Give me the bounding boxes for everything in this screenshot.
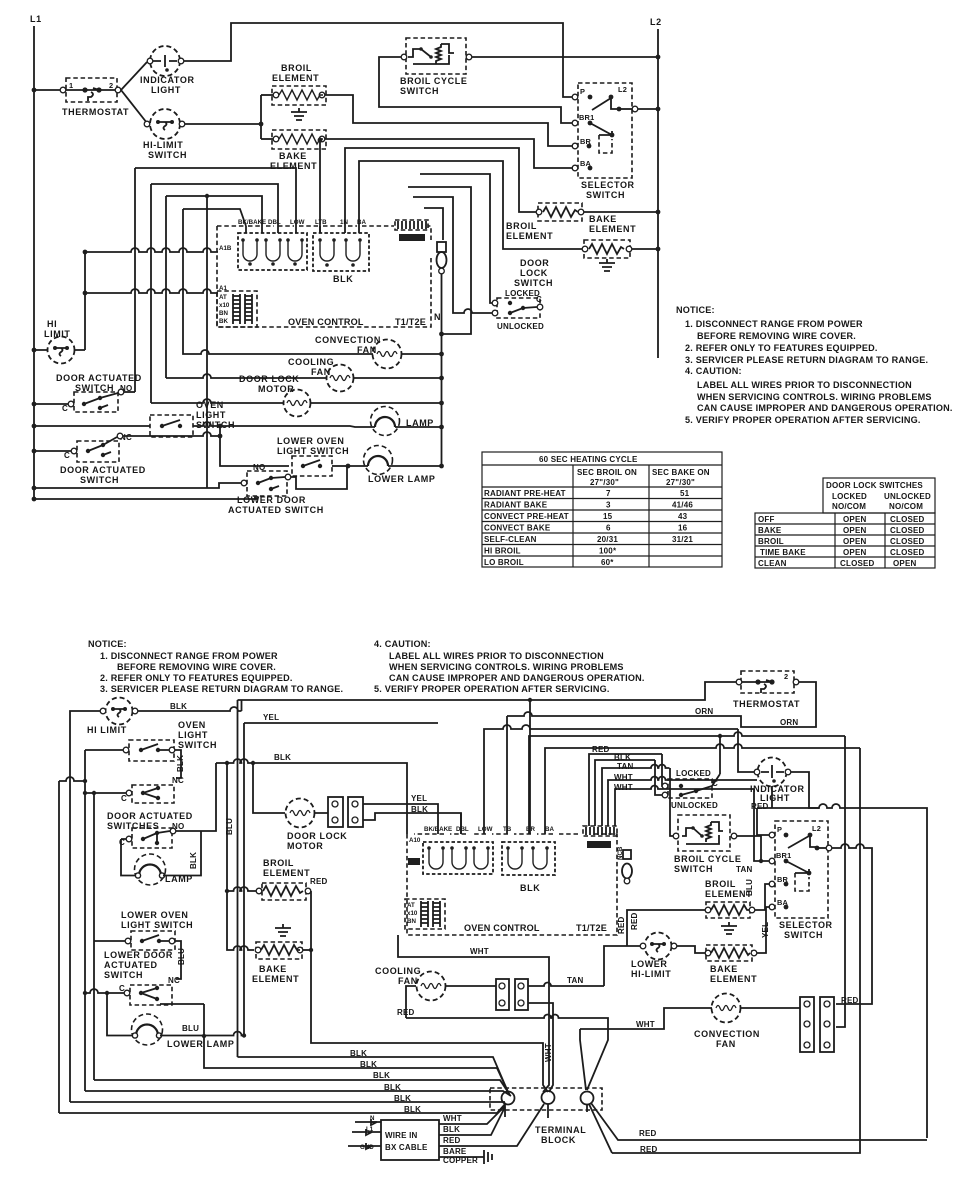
svg-text:OPEN: OPEN [843, 548, 866, 557]
wire ladder vertical v1 [134, 168, 136, 392]
svg-text:RED: RED [640, 1145, 658, 1154]
motor connector blocks J2 [328, 797, 363, 827]
wire WHT line from control [398, 935, 549, 1092]
wire locked feed [662, 754, 665, 786]
svg-text:BR1: BR1 [776, 851, 791, 860]
svg-text:MOTOR: MOTOR [258, 384, 294, 394]
wire NO out and lamp right join [176, 763, 216, 831]
svg-text:LIGHT: LIGHT [178, 730, 208, 740]
cooling connector blocks J4 [446, 979, 528, 1010]
svg-text:SWITCH: SWITCH [674, 864, 713, 874]
svg-text:41/46: 41/46 [672, 501, 693, 510]
wire broil cycle out to BR1 [737, 836, 761, 861]
svg-text:DOOR LOCK: DOOR LOCK [287, 831, 347, 841]
oven light switch S7 [32, 400, 375, 437]
svg-text:L2: L2 [618, 85, 627, 94]
svg-text:THERMOSTAT: THERMOSTAT [733, 699, 800, 709]
svg-text:AT: AT [219, 294, 227, 301]
svg-text:HI LIMIT: HI LIMIT [87, 725, 127, 735]
svg-text:SWITCH: SWITCH [784, 930, 823, 940]
sensor oval F1 [437, 242, 447, 274]
wire connector to bake el right side (staircase 5b) [408, 187, 471, 334]
svg-text:NO: NO [253, 463, 265, 472]
svg-text:SWITCH: SWITCH [148, 150, 187, 160]
wire C row 1 [85, 792, 126, 794]
wire relay pin to right bake element (staircase 4) [359, 161, 582, 249]
svg-text:ELEMENT: ELEMENT [270, 161, 317, 171]
svg-text:CAN CAUSE IMPROPER AND DANGERO: CAN CAUSE IMPROPER AND DANGEROUS OPERATI… [389, 673, 645, 683]
svg-text:YEL: YEL [263, 713, 279, 722]
svg-text:OPEN: OPEN [843, 515, 866, 524]
wire BLK mid bus [216, 759, 407, 834]
svg-text:BLK: BLK [394, 1094, 411, 1103]
svg-text:BLK: BLK [384, 1083, 401, 1092]
wire ladder vertical v3 [165, 196, 167, 378]
svg-text:BAKE: BAKE [758, 526, 782, 535]
svg-text:CONVECT BAKE: CONVECT BAKE [484, 524, 551, 533]
wire hi-limit right to BLK top wire [138, 707, 242, 711]
svg-text:LO BROIL: LO BROIL [484, 558, 524, 567]
svg-text:WHT: WHT [544, 1043, 553, 1062]
hi limit S11 [87, 698, 138, 736]
svg-text:T1/T2E: T1/T2E [395, 317, 426, 327]
svg-text:BLU: BLU [177, 948, 186, 965]
svg-text:BROIL CYCLE: BROIL CYCLE [400, 76, 467, 86]
svg-text:7: 7 [606, 489, 611, 498]
wire thermostat split to indicator and hi-limit [121, 62, 147, 123]
svg-text:RED: RED [630, 912, 639, 930]
svg-text:HI-LIMIT: HI-LIMIT [631, 969, 671, 979]
door actuated switch S6 (NO) [32, 373, 142, 413]
wire L2 vertical bus [657, 29, 659, 358]
svg-text:COOLING: COOLING [288, 357, 334, 367]
wire ladder h1 to pin [135, 168, 296, 226]
wire post2/post3 feeds from above [543, 957, 549, 1085]
svg-text:2: 2 [109, 81, 113, 90]
svg-text:LOCKED: LOCKED [832, 492, 867, 501]
svg-text:NOTICE:: NOTICE: [676, 305, 715, 315]
svg-text:2. REFER ONLY TO FEATURES EQUI: 2. REFER ONLY TO FEATURES EQUIPPED. [685, 343, 878, 353]
wire indicator to top bus and P of selector [184, 23, 573, 97]
lower oven light switch S15 [121, 910, 193, 950]
svg-text:OVEN CONTROL: OVEN CONTROL [464, 923, 540, 933]
svg-text:UNLOCKED: UNLOCKED [671, 801, 718, 810]
wire lower lamp right to bottom bus B1 [160, 1032, 244, 1036]
svg-text:LOCKED: LOCKED [505, 289, 540, 298]
convection connector blocks J5 [741, 997, 834, 1052]
svg-text:BLK: BLK [274, 753, 291, 762]
svg-text:C: C [712, 779, 718, 788]
svg-text:LTB: LTB [315, 219, 327, 226]
svg-text:BR1: BR1 [579, 113, 594, 122]
svg-text:1: 1 [69, 81, 73, 90]
svg-text:BAKE: BAKE [259, 964, 287, 974]
svg-text:FAN: FAN [398, 976, 418, 986]
wire tan to broil cycle left [670, 768, 675, 836]
svg-text:LOWER DOOR: LOWER DOOR [104, 950, 173, 960]
svg-text:43: 43 [678, 512, 688, 521]
svg-text:OFF: OFF [758, 515, 775, 524]
convection fan M1 [183, 335, 444, 369]
svg-text:2: 2 [784, 672, 788, 681]
svg-text:60*: 60* [601, 558, 614, 567]
svg-text:100*: 100* [599, 547, 617, 556]
svg-text:SWITCH: SWITCH [196, 420, 235, 430]
svg-text:TIME BAKE: TIME BAKE [760, 548, 806, 557]
wire TAN line [528, 983, 604, 987]
svg-text:31/21: 31/21 [672, 535, 693, 544]
svg-text:DOOR: DOOR [520, 258, 549, 268]
svg-text:ORN: ORN [780, 718, 798, 727]
svg-text:RED: RED [592, 745, 610, 754]
wire RED line to post3 [406, 1015, 608, 1091]
broil cycle switch S2 [400, 38, 472, 96]
relay bank RB3 [423, 826, 493, 874]
svg-text:ELEMENT: ELEMENT [710, 974, 757, 984]
svg-text:BLK: BLK [614, 753, 631, 762]
svg-text:RED: RED [617, 916, 626, 934]
wire bake element left-side to BA (staircase 2) [325, 139, 573, 168]
svg-text:AT: AT [407, 902, 415, 909]
svg-text:SWITCH: SWITCH [514, 278, 553, 288]
svg-text:LOW: LOW [290, 219, 305, 226]
wire selector L2 out to v3 [832, 844, 872, 1004]
svg-text:OVEN: OVEN [178, 720, 206, 730]
wire bake right up to BA (YEL) [757, 907, 770, 953]
svg-text:BEFORE REMOVING WIRE COVER.: BEFORE REMOVING WIRE COVER. [117, 662, 276, 672]
wire indicator left feed [738, 729, 754, 772]
svg-text:SELECTOR: SELECTOR [581, 180, 635, 190]
svg-text:BN: BN [219, 310, 228, 317]
lower oven light switch S9 [277, 436, 349, 476]
svg-text:C: C [536, 295, 542, 304]
svg-text:20/31: 20/31 [597, 535, 618, 544]
svg-text:WHEN SERVICING CONTROLS. WIRIN: WHEN SERVICING CONTROLS. WIRING PROBLEMS [697, 392, 932, 402]
svg-text:BX CABLE: BX CABLE [385, 1143, 428, 1152]
hi-limit switch S1 [143, 109, 187, 160]
svg-text:LOW: LOW [478, 826, 493, 833]
svg-text:ELEMENT: ELEMENT [272, 73, 319, 83]
wire in bx cable J6 [348, 1115, 439, 1160]
bake element bottom right R8 [705, 922, 757, 984]
svg-text:C: C [119, 984, 125, 993]
svg-text:SWITCH: SWITCH [400, 86, 439, 96]
svg-text:CLOSED: CLOSED [890, 515, 925, 524]
wire left bus b1 with hop [59, 777, 85, 781]
wire indicator right to right bus v4 [791, 772, 927, 1138]
relay pins vertical stubs [246, 226, 359, 233]
svg-text:5. VERIFY PROPER OPERATION AFT: 5. VERIFY PROPER OPERATION AFTER SERVICI… [685, 415, 921, 425]
svg-text:ELEMENT: ELEMENT [506, 231, 553, 241]
svg-text:A1: A1 [219, 285, 227, 292]
svg-text:DOOR ACTUATED: DOOR ACTUATED [107, 811, 193, 821]
wire lamp row drop to lower light switch [220, 426, 289, 466]
svg-text:RED: RED [443, 1136, 461, 1145]
svg-text:INDICATOR: INDICATOR [140, 75, 195, 85]
svg-text:BLK: BLK [170, 702, 187, 711]
svg-text:WHT: WHT [614, 773, 633, 782]
svg-text:ELEMENT: ELEMENT [252, 974, 299, 984]
svg-text:LOWER LAMP: LOWER LAMP [368, 474, 436, 484]
svg-text:BLK: BLK [176, 755, 185, 772]
svg-text:BLK: BLK [360, 1060, 377, 1069]
svg-text:WIRE IN: WIRE IN [385, 1131, 418, 1140]
svg-text:BLK: BLK [189, 852, 198, 869]
svg-text:SELF-CLEAN: SELF-CLEAN [484, 535, 537, 544]
oven light switch S12 [123, 720, 217, 761]
svg-text:LABEL ALL WIRES PRIOR TO DISCO: LABEL ALL WIRES PRIOR TO DISCONNECTION [389, 651, 604, 661]
wire connector low to bundle [528, 1003, 553, 1092]
svg-text:BLK: BLK [411, 805, 428, 814]
svg-text:1N: 1N [340, 219, 348, 226]
svg-text:LOCK: LOCK [520, 268, 548, 278]
svg-text:3. SERVICER PLEASE RETURN DIAG: 3. SERVICER PLEASE RETURN DIAGRAM TO RAN… [100, 684, 343, 694]
lower hi-limit S20 [631, 933, 677, 980]
svg-text:27"/30": 27"/30" [590, 478, 619, 487]
wire connector fan out RED/BLK/TAN/WHT/WHT [589, 754, 662, 826]
ground between elements [291, 108, 307, 120]
svg-text:WHT: WHT [470, 947, 489, 956]
svg-text:2. REFER ONLY TO FEATURES EQUI: 2. REFER ONLY TO FEATURES EQUIPPED. [100, 673, 293, 683]
svg-text:CAN CAUSE IMPROPER AND DANGERO: CAN CAUSE IMPROPER AND DANGEROUS OPERATI… [697, 403, 953, 413]
svg-text:RED: RED [397, 1008, 415, 1017]
wire ladder vertical v4 [182, 209, 184, 352]
svg-text:3: 3 [606, 501, 611, 510]
wire lower hi-limit left to TAN line [604, 946, 640, 986]
svg-text:CLOSED: CLOSED [890, 537, 925, 546]
svg-text:DOOR LOCK: DOOR LOCK [239, 374, 299, 384]
svg-text:SWITCH: SWITCH [104, 970, 143, 980]
connector J1 right [395, 220, 428, 241]
svg-text:6: 6 [606, 524, 611, 533]
wire broil cycle left to BR1 [379, 57, 573, 123]
wire hi-limit to elements junction [185, 95, 261, 139]
svg-text:51: 51 [680, 489, 690, 498]
wire unlocked feed [655, 760, 665, 795]
wire YEL/BLK to control pins [363, 804, 438, 834]
relay bank RB2 [313, 219, 369, 284]
broil element R1 [261, 63, 326, 105]
svg-text:P: P [777, 825, 782, 834]
svg-text:C: C [121, 794, 127, 803]
hi limit S5 [32, 319, 85, 364]
svg-text:LIGHT SWITCH: LIGHT SWITCH [277, 446, 349, 456]
svg-text:BLK: BLK [443, 1125, 460, 1134]
svg-text:BLK: BLK [404, 1105, 421, 1114]
svg-text:x10: x10 [219, 302, 230, 309]
svg-text:ELEMENT: ELEMENT [589, 224, 636, 234]
svg-text:BLU: BLU [225, 818, 234, 835]
svg-text:L2: L2 [650, 17, 662, 27]
wire ladder vertical v5 [206, 196, 208, 488]
lamp DS2 [371, 407, 444, 436]
wire ladder vertical v2 [150, 184, 152, 403]
svg-text:CLEAN: CLEAN [758, 559, 787, 568]
svg-text:WHT: WHT [614, 783, 633, 792]
svg-text:RADIANT BAKE: RADIANT BAKE [484, 501, 548, 510]
svg-text:BROIL CYCLE: BROIL CYCLE [674, 854, 741, 864]
cooling fan M5 [375, 966, 446, 1001]
svg-text:CONVECTION: CONVECTION [315, 335, 381, 345]
wire lower light out down (BLU) [175, 941, 181, 979]
svg-text:NO/COM: NO/COM [832, 502, 866, 511]
svg-text:LOWER OVEN: LOWER OVEN [277, 436, 345, 446]
svg-text:NOTICE:: NOTICE: [88, 639, 127, 649]
broil cycle switch S18 [673, 815, 752, 874]
wire ladder h4 to pin [183, 209, 246, 226]
svg-text:27"/30": 27"/30" [666, 478, 695, 487]
door lock switch S4 [492, 258, 553, 331]
lamp DS4 [135, 854, 193, 885]
svg-text:1. DISCONNECT RANGE FROM POWER: 1. DISCONNECT RANGE FROM POWER [100, 651, 278, 661]
broil element right side R3 [506, 203, 584, 241]
wire cooling fan left to RED line [406, 986, 416, 1018]
svg-text:SWITCH: SWITCH [586, 190, 625, 200]
svg-text:4. CAUTION:: 4. CAUTION: [685, 366, 742, 376]
svg-text:BLU: BLU [182, 1024, 199, 1033]
wire lamp drop [107, 993, 134, 1036]
wire broil left down to lower hi-limit [627, 910, 705, 946]
svg-text:DOOR ACTUATED: DOOR ACTUATED [56, 373, 142, 383]
svg-text:FAN: FAN [716, 1039, 736, 1049]
svg-text:BAKE: BAKE [710, 964, 738, 974]
svg-text:CONVECTION: CONVECTION [694, 1029, 760, 1039]
svg-text:1. DISCONNECT RANGE FROM POWER: 1. DISCONNECT RANGE FROM POWER [685, 319, 863, 329]
svg-text:COOLING: COOLING [375, 966, 421, 976]
wire bottom bus B3 [94, 1080, 510, 1095]
wire relay pin to right broil element (staircase 3) [345, 148, 536, 226]
svg-text:NO/COM: NO/COM [889, 502, 923, 511]
svg-text:CONVECT PRE-HEAT: CONVECT PRE-HEAT [484, 512, 569, 521]
wire broil cycle right to L2 [472, 56, 658, 58]
svg-text:BLOCK: BLOCK [541, 1135, 576, 1145]
wire right bus v2 end [612, 748, 860, 1153]
wire C2 to lamp [121, 839, 137, 876]
wire indicator bottom to P [757, 786, 819, 835]
svg-text:BLK: BLK [333, 274, 353, 284]
wire bottom bus B6 [59, 1103, 506, 1113]
svg-text:WHEN SERVICING CONTROLS. WIRIN: WHEN SERVICING CONTROLS. WIRING PROBLEMS [389, 662, 624, 672]
door lock motor M4 [253, 763, 347, 851]
transformer T2 [217, 291, 257, 327]
wire connector to unlocked terminal (staircase 6) [413, 197, 493, 313]
door actuated switch S14 (NO) [107, 811, 193, 848]
heating cycle table [482, 452, 722, 567]
wire selector L2 out [638, 108, 658, 110]
wire bottom bus B4 [85, 1091, 511, 1096]
svg-text:THERMOSTAT: THERMOSTAT [62, 107, 129, 117]
selector switch S3 [572, 83, 638, 200]
wire pin verticals up from bottom control [460, 813, 462, 834]
svg-text:MOTOR: MOTOR [287, 841, 323, 851]
svg-text:UNLOCKED: UNLOCKED [884, 492, 931, 501]
svg-text:HI BROIL: HI BROIL [484, 547, 521, 556]
svg-text:LOWER DOOR: LOWER DOOR [237, 495, 306, 505]
svg-text:CLOSED: CLOSED [890, 526, 925, 535]
svg-text:BLU: BLU [745, 879, 754, 896]
svg-text:P: P [580, 87, 585, 96]
svg-text:YEL: YEL [761, 922, 770, 938]
door lock motor M3 [151, 374, 444, 417]
wire broil element left-side to BR (staircase 1) [325, 95, 573, 146]
ground bare copper [484, 1150, 492, 1164]
wire YEL top [244, 722, 438, 724]
svg-text:LOWER LAMP: LOWER LAMP [167, 1039, 235, 1049]
wire broil el right to L2 [584, 211, 658, 213]
broil element bottom-left R5 [225, 858, 328, 950]
svg-text:RADIANT PRE-HEAT: RADIANT PRE-HEAT [484, 489, 566, 498]
svg-text:16: 16 [678, 524, 688, 533]
indicator light DS1 [140, 46, 195, 95]
wire WHT to convection [580, 1008, 712, 1029]
wire connector to locked terminal (staircase 5) [420, 174, 493, 303]
wire N bus vertical [441, 274, 443, 464]
wire bottom bus B5 [70, 1101, 505, 1103]
notice text top [676, 305, 953, 425]
svg-text:BLK: BLK [350, 1049, 367, 1058]
svg-text:ACTUATED: ACTUATED [104, 960, 158, 970]
wire ORN loop [507, 682, 816, 727]
svg-text:RED: RED [310, 877, 328, 886]
svg-text:OVEN CONTROL: OVEN CONTROL [288, 317, 364, 327]
svg-text:DBL: DBL [268, 219, 281, 226]
svg-text:BA: BA [545, 826, 554, 833]
indicator light DS6 [750, 758, 805, 812]
svg-text:RED: RED [751, 802, 769, 811]
svg-text:L2: L2 [812, 824, 821, 833]
door actuated switch S8 (NC) [32, 432, 220, 485]
svg-text:BN: BN [407, 918, 416, 925]
svg-text:HI: HI [47, 319, 57, 329]
oven control box T3 bottom [407, 834, 617, 935]
svg-text:BROIL: BROIL [281, 63, 312, 73]
svg-text:A10: A10 [409, 837, 421, 844]
svg-text:SELECTOR: SELECTOR [779, 920, 833, 930]
svg-text:BAKE: BAKE [279, 151, 307, 161]
svg-text:LIGHT SWITCH: LIGHT SWITCH [121, 920, 193, 930]
wire post1 drops [505, 1104, 587, 1118]
bake element bottom-center R6 [252, 924, 548, 1092]
door lock switches table [755, 478, 935, 568]
svg-text:OPEN: OPEN [893, 559, 916, 568]
svg-text:C: C [64, 451, 70, 460]
svg-text:A1B: A1B [219, 245, 232, 252]
wire bottom bus B2 [204, 1004, 509, 1094]
svg-text:TAN: TAN [617, 762, 633, 771]
locked/unlocked switch S17 [662, 736, 720, 810]
svg-text:OPEN: OPEN [843, 537, 866, 546]
wire ladder h3 to pin [166, 196, 262, 226]
connector J3 right [583, 826, 617, 848]
svg-text:5. VERIFY PROPER OPERATION AFT: 5. VERIFY PROPER OPERATION AFTER SERVICI… [374, 684, 610, 694]
svg-text:LIGHT: LIGHT [151, 85, 181, 95]
svg-text:LOWER OVEN: LOWER OVEN [121, 910, 189, 920]
svg-text:LOWER: LOWER [631, 959, 668, 969]
svg-text:NC: NC [172, 776, 184, 785]
svg-text:15: 15 [603, 512, 613, 521]
svg-text:BROIL: BROIL [506, 221, 537, 231]
relay bank RB1 [238, 219, 307, 270]
svg-text:SWITCH: SWITCH [80, 475, 119, 485]
svg-text:YEL: YEL [411, 794, 427, 803]
wire long vertical from YEL [243, 723, 245, 1036]
svg-text:UNLOCKED: UNLOCKED [497, 322, 544, 331]
svg-text:BA: BA [357, 219, 366, 226]
svg-text:HI-LIMIT: HI-LIMIT [143, 140, 183, 150]
svg-text:TAN: TAN [567, 976, 583, 985]
svg-text:BROIL: BROIL [705, 879, 736, 889]
wire hi-limit row to control pins (two rows with hops) [85, 248, 218, 252]
